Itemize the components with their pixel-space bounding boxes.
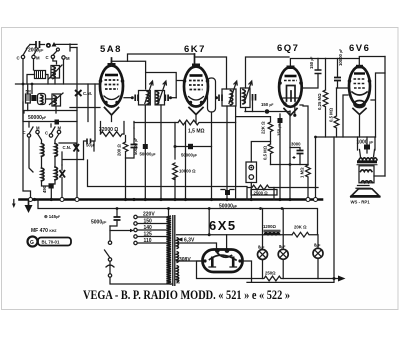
svg-text:250Ω: 250Ω — [265, 271, 276, 276]
tube 6V6 heater V — [353, 109, 366, 115]
svg-text:C: C — [46, 55, 49, 60]
svg-text:5A8: 5A8 — [100, 44, 122, 55]
coil L1 top — [51, 66, 60, 79]
wire B+ riser — [208, 209, 210, 235]
IF1 secondary capacitor — [165, 95, 168, 102]
B+ second line — [38, 200, 318, 235]
wire 6Q7 diode pin drop — [303, 106, 308, 165]
capacitor 490 — [49, 183, 54, 188]
IF1 secondary box — [155, 91, 164, 105]
svg-text:150 pF: 150 pF — [277, 124, 282, 136]
tube 6K7 heater V — [189, 108, 203, 115]
tube 6K7 envelope — [184, 67, 208, 107]
wire heater rail — [88, 160, 319, 188]
tube 5A8 top cap — [111, 58, 113, 66]
svg-text:6X5: 6X5 — [209, 218, 237, 233]
wire 6V6 top loop — [359, 57, 385, 68]
speaker cone — [352, 189, 380, 196]
wire 6K7 shield drop — [211, 112, 213, 200]
tube 6X5 envelope — [203, 250, 243, 273]
svg-text:C.N.: C.N. — [63, 145, 72, 150]
svg-text:50000pF: 50000pF — [181, 153, 197, 158]
IF2 trimmer arrow — [229, 81, 237, 104]
tube 6V6 beam band — [352, 92, 367, 95]
tube 5A8 anode arc — [104, 96, 119, 100]
svg-text:308V: 308V — [179, 257, 191, 263]
tube 6Q7 side pins — [278, 81, 282, 85]
long vertical to AVC — [76, 48, 78, 200]
svg-text:⊕ 145pF: ⊕ 145pF — [44, 214, 60, 219]
svg-text:10000 Ω: 10000 Ω — [179, 169, 196, 174]
wire plate rail — [146, 73, 184, 98]
tube 6V6 envelope — [349, 67, 370, 106]
wire grid rail — [24, 111, 77, 114]
wire bottom rail to arrow — [318, 278, 339, 280]
IF1 primary box — [139, 91, 151, 105]
6K7 side shield box — [208, 78, 216, 112]
wire cap to switch — [27, 45, 31, 49]
phono jack box — [246, 162, 257, 183]
tube 6X5 top pins — [215, 248, 220, 253]
svg-text:8μF: 8μF — [279, 244, 285, 249]
IF1 primary capacitor — [135, 95, 138, 102]
svg-text:8μF: 8μF — [314, 243, 320, 248]
svg-text:C: C — [45, 131, 48, 136]
wire AF junction — [271, 164, 309, 166]
tube 5A8 side pins — [99, 79, 103, 83]
svg-text:300V: 300V — [176, 274, 181, 284]
mains voltage taps — [134, 215, 137, 218]
svg-text:WS - RP1: WS - RP1 — [351, 199, 371, 204]
svg-text:0,5 MΩ: 0,5 MΩ — [263, 145, 268, 160]
coil B1 — [42, 168, 45, 181]
tube 6V6 cathode ellipse — [354, 101, 365, 108]
wire transformer top to B+ — [168, 209, 170, 217]
coil block left — [26, 94, 31, 103]
wire drop to bus — [333, 137, 335, 279]
svg-text:50000μF: 50000μF — [140, 152, 156, 157]
wave switch row 1 — [21, 55, 24, 58]
coil block var — [52, 94, 61, 106]
left rail end tick — [12, 204, 16, 209]
transformer core — [173, 215, 175, 286]
svg-text:6V6: 6V6 — [349, 43, 370, 54]
trimmer arrow lower — [60, 170, 66, 178]
svg-text:M: M — [66, 56, 70, 61]
wire AVC top line — [128, 54, 195, 61]
svg-text:150 pF: 150 pF — [261, 102, 273, 107]
mains switch — [109, 226, 111, 241]
svg-text:22K Ω: 22K Ω — [261, 121, 266, 134]
coil horizontal upper — [35, 71, 46, 79]
6,3V label — [177, 238, 183, 242]
tube 6Q7 top cap — [287, 66, 295, 70]
wire top rail right — [326, 58, 360, 60]
wire screen rail — [134, 122, 178, 124]
wire 6K7 top loop — [195, 57, 227, 89]
wire 6X5 left drop — [197, 261, 252, 279]
IF1 trimmer arrow 2 — [158, 81, 166, 104]
tube 6Q7 heater V — [284, 109, 297, 116]
tube 5A8 envelope — [100, 66, 123, 107]
wave switch row 2 — [27, 134, 30, 137]
tube 6K7 side pins — [183, 79, 187, 83]
svg-text:G: G — [30, 240, 34, 246]
tube 6Q7 envelope — [279, 67, 302, 107]
ground bus — [20, 198, 323, 201]
tube 6V6 top cap — [356, 65, 363, 69]
svg-text:VEGA - B. P. RADIO MODD. « 521: VEGA - B. P. RADIO MODD. « 521 » e « 522… — [83, 287, 290, 302]
transformer primary winding — [167, 216, 172, 284]
svg-text:M: M — [36, 56, 40, 61]
tube 6V6 side pins — [348, 79, 352, 83]
wire IF1 drops — [145, 105, 161, 200]
svg-text:150 pF: 150 pF — [309, 57, 314, 69]
svg-text:1 MΩ: 1 MΩ — [300, 167, 305, 178]
svg-text:10000 pF: 10000 pF — [338, 49, 343, 66]
coil B2 — [55, 167, 58, 180]
svg-text:0,5 MΩ: 0,5 MΩ — [329, 107, 334, 122]
IF1 primary coil — [147, 92, 149, 105]
wire 5A8 top loop — [111, 61, 145, 89]
IF1 secondary coil — [157, 92, 159, 105]
svg-text:1,5 MΩ: 1,5 MΩ — [188, 129, 205, 135]
wire 6X5 output — [243, 261, 252, 282]
tube 6K7 anode arc — [189, 97, 204, 101]
coil A1 — [42, 144, 45, 157]
wire 5A8 pin drops — [88, 84, 95, 141]
capacitor 50000pF on bus — [225, 190, 230, 195]
ground arrow — [28, 200, 30, 205]
wire IF2 connections — [226, 106, 228, 200]
transformer secondary windings — [177, 238, 179, 283]
IF2 secondary capacitor — [253, 94, 256, 101]
tube 6Q7 grid bars — [285, 75, 297, 78]
tube 6V6 grid bars — [354, 72, 365, 74]
svg-text:C.M.: C.M. — [83, 91, 92, 96]
IF2 secondary coil var — [241, 88, 251, 108]
tube 6K7 top cap — [194, 54, 196, 66]
wire mid rail — [316, 137, 376, 197]
wire 1,5M drop — [185, 123, 187, 200]
capacitor 50000uF AVC — [143, 144, 148, 149]
wire 6V6 cathode/sides — [343, 95, 360, 137]
svg-text:M: M — [58, 126, 62, 131]
svg-text:200 Ω: 200 Ω — [117, 144, 122, 156]
tube 6X5 inner arcs — [210, 255, 237, 260]
IF2 primary capacitor — [219, 95, 222, 102]
output transformer primary — [358, 137, 376, 157]
svg-text:BL 70-01: BL 70-01 — [42, 240, 60, 245]
svg-text:3000: 3000 — [291, 142, 301, 147]
tube 5A8 heater V — [105, 108, 119, 116]
tube 6K7 grid bars — [190, 74, 203, 77]
tube 6Q7 diode hook — [287, 86, 296, 102]
wire — [59, 143, 84, 165]
svg-text:1200Ω: 1200Ω — [263, 224, 277, 229]
wire 6Q7 plate loop — [290, 59, 318, 66]
svg-text:C: C — [23, 130, 26, 135]
IF2 primary box — [222, 89, 236, 106]
svg-text:0,25 MΩ: 0,25 MΩ — [317, 93, 322, 110]
svg-text:C: C — [17, 56, 20, 61]
svg-text:490: 490 — [42, 185, 47, 193]
wire left rail — [23, 59, 31, 198]
tube 6X5 electrodes — [212, 257, 233, 268]
tube 5A8 grid bars — [105, 74, 118, 77]
svg-text:20K Ω: 20K Ω — [294, 225, 307, 230]
capacitor 50000pF screen — [175, 146, 212, 148]
coil A2 — [55, 144, 58, 157]
IF1 trimmer arrow — [145, 81, 153, 104]
coil bracket mid — [38, 94, 46, 105]
svg-text:6Q7: 6Q7 — [277, 43, 299, 54]
speaker — [356, 186, 371, 189]
wire antenna to AVC rail — [56, 43, 78, 45]
antenna terminal A — [46, 43, 51, 48]
svg-text:M: M — [36, 126, 40, 131]
svg-text:2500 Ω: 2500 Ω — [254, 190, 269, 195]
capacitor 50pF — [31, 95, 36, 101]
svg-text:500: 500 — [26, 90, 32, 94]
capacitor 2000pF antenna — [30, 44, 45, 46]
wire lower return — [247, 279, 334, 283]
resistor 2500 ohm — [247, 185, 274, 199]
heater line — [177, 243, 217, 249]
output transformer core — [357, 160, 377, 163]
output transformer secondary box — [359, 166, 374, 183]
